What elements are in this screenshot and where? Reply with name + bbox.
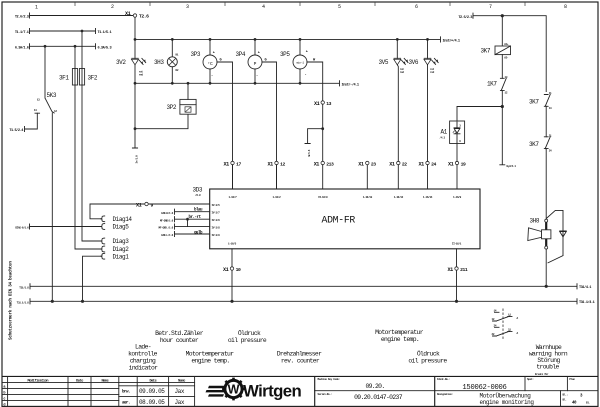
svg-text:Date: Date	[149, 379, 156, 383]
svg-text:Ersatz für: Ersatz für	[535, 372, 549, 376]
svg-text:red: red	[400, 70, 405, 74]
junction bus2 x135	[134, 82, 137, 85]
svg-text:A1+: A1+	[504, 43, 509, 46]
svg-text:Motortemperatur: Motortemperatur	[186, 350, 235, 357]
svg-text:W: W	[228, 383, 240, 397]
svg-text:Diag1: Diag1	[113, 253, 130, 260]
wire 6.3A	[30, 44, 96, 49]
svg-text:T2.6: T2.6	[139, 14, 149, 20]
svg-text:1-16/12: 1-16/12	[394, 195, 404, 199]
wire X1-22 into pin	[397, 165, 399, 189]
junction T31.1 x52	[51, 300, 54, 303]
svg-text:Serial-No.:: Serial-No.:	[318, 392, 332, 396]
svg-text:Motortemperatur: Motortemperatur	[375, 329, 424, 336]
svg-text:/4.3: /4.3	[440, 136, 446, 140]
junction 6.3A to 5K3	[44, 45, 47, 48]
wire Diag1 down to T31.1	[83, 256, 101, 301]
Bl sheet cell	[563, 393, 590, 406]
svg-text:T31/4.1: T31/4.1	[579, 285, 591, 290]
svg-text:6: 6	[415, 4, 418, 10]
svg-text:X1: X1	[136, 202, 142, 208]
svg-text:°C: °C	[207, 61, 213, 67]
switch 5K3	[34, 92, 57, 113]
svg-text:red: red	[139, 73, 144, 77]
svg-text:+: +	[258, 52, 260, 56]
svg-text:T31.1/1.8: T31.1/1.8	[17, 300, 30, 304]
svg-text:3D3: 3D3	[193, 187, 203, 194]
svg-text:IV-3/9: IV-3/9	[212, 233, 221, 237]
wire A1 to X1-19	[456, 144, 458, 162]
svg-text:T2.6/2.3: T2.6/2.3	[458, 15, 472, 20]
horn 3H8	[528, 217, 551, 249]
contact mirror 3K7 cross reference	[492, 309, 519, 340]
junction T31.1 x82	[81, 300, 84, 303]
svg-text:Schutzvermerk nach DIN 34 beac: Schutzvermerk nach DIN 34 beachten	[9, 261, 14, 340]
junction bus1 x427	[426, 38, 429, 41]
lamp 3H3	[154, 39, 179, 83]
svg-text:G: G	[265, 59, 267, 63]
svg-text:indicator: indicator	[129, 364, 158, 371]
fuse 3F1	[59, 46, 78, 85]
svg-text:engine monitoring: engine monitoring	[479, 399, 534, 406]
junction horn to T31	[545, 285, 548, 288]
node X1 24	[426, 161, 429, 164]
wire ADM pin II-16/1 down to T31.1	[456, 249, 458, 301]
gauge 3P3 temperature	[191, 39, 233, 188]
svg-text:23: 23	[371, 161, 376, 167]
svg-text:Diag2: Diag2	[113, 246, 130, 253]
svg-text:ADM-FR: ADM-FR	[322, 214, 356, 225]
suppressor A1	[440, 121, 465, 144]
svg-text:4: 4	[262, 4, 265, 10]
svg-text:X1: X1	[448, 161, 454, 167]
svg-text:3H8: 3H8	[530, 217, 540, 224]
contact 3K7 21/24	[529, 135, 552, 153]
node X1 211	[455, 267, 458, 270]
svg-text:5: 5	[338, 4, 341, 10]
junction bus2 x210	[209, 82, 212, 85]
svg-text:3F1: 3F1	[59, 74, 69, 81]
svg-text:3V6: 3V6	[409, 59, 419, 66]
svg-text:3V2: 3V2	[116, 59, 126, 66]
svg-text:1-16/9: 1-16/9	[453, 195, 462, 199]
svg-text:br.-rt: br.-rt	[189, 215, 202, 220]
junction T31.1 x456	[455, 300, 458, 303]
svg-text:09.20.0147-0237: 09.20.0147-0237	[354, 394, 403, 401]
svg-text:T2.6/2.3: T2.6/2.3	[15, 15, 29, 20]
junction bus2 x172	[171, 82, 174, 85]
wire X1-213 into pin II-16/9	[322, 165, 324, 189]
svg-text:3: 3	[186, 4, 189, 10]
junction bus1 x210	[209, 38, 212, 41]
svg-text:X1: X1	[224, 161, 230, 167]
wire MF-GND. to pin IV-3/8	[175, 224, 210, 229]
wire 3V2 down to flag 3+	[132, 83, 137, 148]
svg-text:6.3A/1.6: 6.3A/1.6	[15, 45, 29, 50]
LED 3V5	[379, 39, 409, 161]
svg-text:X1: X1	[314, 101, 320, 107]
junction bus1 x255	[254, 38, 257, 41]
title block row lines name/date section	[119, 386, 195, 397]
node X1 10	[230, 267, 233, 270]
wire bus T31.1	[30, 299, 577, 304]
svg-text:X1: X1	[419, 161, 425, 167]
svg-text:1-16/2: 1-16/2	[273, 195, 282, 199]
wire 5K3 pin12 down to T31.1	[51, 113, 53, 301]
wire bus T31	[30, 284, 577, 289]
junction bus1 x300	[299, 38, 302, 41]
svg-text:Designation:: Designation:	[437, 392, 453, 396]
svg-text:3V5: 3V5	[379, 59, 389, 66]
svg-text:24: 24	[431, 161, 436, 167]
svg-text:Diag14: Diag14	[113, 216, 133, 223]
svg-text:3K7: 3K7	[481, 48, 491, 55]
junction T31.1 x232	[230, 300, 233, 303]
node X1 213	[321, 161, 324, 164]
svg-text:gelb: gelb	[194, 230, 203, 235]
svg-text:08.09.05: 08.09.05	[139, 399, 165, 406]
wire GND pair vertical	[187, 219, 189, 226]
wire 3F1 down to Diag2	[75, 85, 101, 249]
svg-text:Öldruck: Öldruck	[417, 349, 440, 357]
svg-text:3P2: 3P2	[167, 104, 177, 111]
svg-text:3K7: 3K7	[529, 98, 539, 105]
svg-text:aer.: aer.	[122, 401, 130, 405]
svg-text:Instr-/4.1: Instr-/4.1	[342, 82, 359, 87]
svg-text:X1: X1	[358, 161, 364, 167]
junction W branch	[321, 127, 324, 130]
svg-text:G: G	[220, 59, 222, 63]
junction bus1 x397	[396, 38, 399, 41]
svg-text:Bl.:: Bl.:	[563, 393, 568, 397]
svg-text:+: +	[306, 51, 308, 55]
wire 3F2 down to Diag3	[82, 85, 101, 241]
svg-text:brw.: brw.	[122, 389, 130, 394]
svg-text:oil pressure: oil pressure	[228, 337, 267, 344]
svg-text:T31/1.8: T31/1.8	[19, 285, 29, 289]
svg-text:Instr+/4.1: Instr+/4.1	[443, 39, 460, 44]
LED 3V6	[409, 39, 439, 161]
svg-text:Plan: Plan	[569, 377, 575, 381]
svg-text:T1.1/5.1: T1.1/5.1	[98, 30, 112, 35]
wire 3P2 branch	[135, 114, 188, 129]
row brw 09.09.05 Jax	[122, 388, 185, 395]
svg-text:-: -	[256, 74, 258, 78]
svg-text:3F2: 3F2	[88, 74, 98, 81]
wire CAN-H to pin IV-3/7	[175, 209, 210, 214]
svg-text:trouble: trouble	[536, 363, 559, 370]
svg-text:T31.1/4.1: T31.1/4.1	[579, 300, 595, 305]
svg-text:T1.5/2.4: T1.5/2.4	[9, 128, 24, 133]
svg-text:8: 8	[564, 4, 567, 10]
svg-text:Drehzahlmesser: Drehzahlmesser	[277, 350, 322, 357]
wire between contacts	[545, 106, 547, 137]
svg-text:X1: X1	[314, 161, 320, 167]
svg-text:19: 19	[461, 161, 466, 167]
junction bus2 x188	[187, 82, 190, 85]
connector Diag1	[100, 253, 104, 259]
svg-text:-: -	[211, 74, 213, 78]
title block top line	[2, 375, 598, 377]
Wirtgen logo speed bars	[206, 386, 229, 397]
wire T1.1	[30, 28, 96, 33]
node X1 19	[455, 161, 458, 164]
wire CAN-L to pin IV-3/9	[175, 231, 210, 236]
svg-text:d: d	[3, 403, 5, 407]
wire 6.3A down to 5K3	[44, 46, 46, 98]
svg-text:oil pressure: oil pressure	[408, 357, 447, 364]
svg-text:T1.1/7.1: T1.1/7.1	[15, 30, 29, 35]
wire contact down to horn	[545, 149, 547, 219]
svg-text:Diag5: Diag5	[113, 224, 130, 231]
svg-text:Hyd/4.1: Hyd/4.1	[507, 164, 517, 168]
svg-text:12: 12	[280, 161, 285, 167]
svg-text:X1: X1	[125, 11, 131, 17]
svg-text:+: +	[213, 52, 215, 56]
svg-text:IV-3/7: IV-3/7	[212, 210, 221, 214]
svg-text:Name: Name	[101, 379, 108, 383]
wire X1-24 into pin	[427, 165, 429, 189]
svg-text:A1: A1	[441, 129, 448, 136]
svg-text:rev. counter: rev. counter	[281, 357, 320, 364]
svg-text:II-16/1: II-16/1	[452, 242, 462, 246]
Wirtgen logo gear	[222, 378, 245, 401]
svg-text:213: 213	[326, 161, 334, 167]
wire MF-GND to pin IV-3/6	[175, 217, 210, 222]
wire junction left to A1	[457, 107, 502, 122]
svg-text:c: c	[3, 398, 5, 402]
svg-text:211: 211	[460, 267, 468, 273]
wire bus Instr-	[135, 81, 340, 86]
node X1 13	[321, 101, 324, 104]
svg-text:1-16/7: 1-16/7	[229, 195, 238, 199]
node X1 17	[231, 161, 234, 164]
wire X1-19 into pin	[456, 165, 458, 189]
svg-text:IV-3/5: IV-3/5	[212, 203, 221, 207]
svg-text:X1: X1	[223, 267, 229, 273]
node X1 T2.6	[133, 14, 136, 17]
connector Diag5	[100, 224, 104, 230]
svg-text:kontrolle: kontrolle	[128, 350, 157, 357]
svg-text:engine temp.: engine temp.	[191, 357, 229, 364]
node X1 9	[145, 202, 148, 205]
svg-text:CAN-H/1.6: CAN-H/1.6	[161, 211, 174, 215]
svg-text:charging: charging	[130, 357, 156, 364]
wire coil to 1K7	[501, 55, 503, 79]
node X1 22	[397, 161, 400, 164]
junction bus2 x300	[299, 82, 302, 85]
svg-text:/6.8: /6.8	[195, 193, 201, 197]
svg-text:2: 2	[111, 4, 114, 10]
svg-text:1-16/5: 1-16/5	[228, 242, 237, 246]
junction T1.1 to 3F2	[81, 30, 84, 33]
fuse 3F2	[79, 31, 97, 85]
column ticks top border	[75, 2, 525, 6]
wire 5K3 pin14 to T1.5 flag	[25, 113, 38, 131]
svg-text:1K7: 1K7	[487, 81, 497, 88]
junction 6.3A to 3F1	[74, 45, 77, 48]
svg-text:Name: Name	[178, 379, 185, 383]
svg-text:engine temp.: engine temp.	[381, 336, 419, 343]
wire T2.6 right feed	[473, 13, 546, 91]
svg-text:Bl.: Bl.	[586, 400, 590, 404]
svg-text:3H3: 3H3	[154, 59, 164, 66]
junction bus1 x135	[134, 38, 137, 41]
svg-text:5K3: 5K3	[47, 92, 57, 99]
svg-text:22: 22	[402, 161, 407, 167]
svg-text:150062-0006: 150062-0006	[462, 384, 506, 392]
svg-text:10: 10	[236, 267, 241, 273]
svg-text:II-16/9: II-16/9	[318, 195, 328, 199]
controller U 3D3 ADM-FR box	[210, 189, 480, 249]
wire bus Instr+	[135, 37, 441, 42]
LED 3V2	[116, 39, 146, 83]
hour counter 3P2	[167, 83, 197, 114]
title block mid horizontal right part	[315, 390, 598, 392]
svg-text:13: 13	[326, 101, 331, 107]
diode across horn	[547, 210, 567, 262]
svg-text:A2-: A2-	[504, 57, 509, 60]
svg-text:Diag3: Diag3	[113, 238, 130, 245]
svg-text:blau: blau	[194, 208, 203, 213]
wire branch to W flag	[305, 129, 323, 144]
title block verticals	[8, 376, 195, 406]
svg-text:MF-GND./1.6: MF-GND./1.6	[159, 226, 174, 230]
svg-text:3+/1.8: 3+/1.8	[135, 155, 139, 164]
svg-text:Modification: Modification	[28, 378, 49, 383]
junction GND pair	[186, 218, 189, 221]
connector Diag2	[100, 246, 104, 252]
svg-text:1-16/14: 1-16/14	[423, 195, 433, 199]
svg-text:MF-GND/1.6: MF-GND/1.6	[160, 218, 174, 222]
svg-text:IV-3/8: IV-3/8	[212, 225, 221, 229]
wire X1 down to lamp bus	[134, 17, 136, 39]
svg-text:1: 1	[35, 5, 38, 11]
svg-text:Wirtgen: Wirtgen	[243, 382, 301, 401]
wire X1-12 into pin	[276, 165, 278, 189]
wire X1-9 to ADM pin IV-3/5	[149, 203, 210, 205]
wire X1-17 into pin	[232, 165, 234, 189]
wire junction down to coil	[501, 16, 503, 46]
svg-text:09.09.05: 09.09.05	[139, 388, 165, 395]
svg-text:Ident-No.:: Ident-No.:	[437, 377, 450, 381]
wire Diag5 to DIAG-6 flag	[30, 224, 101, 229]
svg-text:red: red	[430, 70, 435, 74]
row aer 08.09.05 Jax	[122, 399, 185, 406]
svg-text:Lade-: Lade-	[135, 343, 151, 350]
row letters a b c d	[3, 386, 6, 407]
svg-text:6.3A/5.3: 6.3A/5.3	[98, 45, 112, 50]
svg-text:09.20.: 09.20.	[365, 383, 384, 390]
svg-text:P: P	[254, 61, 257, 67]
svg-text:IV-3/6: IV-3/6	[212, 218, 221, 222]
svg-text:W/1.6: W/1.6	[307, 149, 311, 156]
svg-text:DIAG-6/1.6: DIAG-6/1.6	[15, 226, 29, 230]
node X1 23 + wire to pin 1-16/13	[366, 165, 368, 189]
svg-text:Machine Key Code:: Machine Key Code:	[318, 377, 340, 381]
svg-text:1-16/13: 1-16/13	[363, 195, 373, 199]
svg-text:X1: X1	[389, 161, 395, 167]
wire T2.6 left	[30, 13, 134, 18]
gauge 3P4 oil pressure	[236, 39, 277, 188]
relay coil 3K7	[481, 43, 511, 59]
wire horn to T31	[545, 249, 547, 286]
svg-text:Date: Date	[76, 379, 83, 383]
title block row lines left section	[2, 382, 195, 400]
svg-text:min-1: min-1	[296, 61, 304, 65]
junction hyd node	[501, 105, 504, 108]
junction bus1 x172	[171, 38, 174, 41]
node X1 12	[275, 161, 278, 164]
column numbers 1-8	[35, 4, 567, 11]
wire X1-13 down	[322, 104, 324, 161]
svg-text:hour counter: hour counter	[160, 337, 199, 344]
gauge 3P5 rev counter	[280, 39, 323, 100]
contact 3K7 11/14	[529, 92, 552, 110]
svg-text:b: b	[3, 391, 5, 396]
svg-text:7: 7	[489, 4, 492, 10]
svg-text:Betr.Std.Zähler: Betr.Std.Zähler	[155, 330, 204, 337]
svg-text:CAN-L/1.6: CAN-L/1.6	[161, 233, 174, 237]
svg-text:3P5: 3P5	[280, 51, 290, 58]
svg-text:Öldruck: Öldruck	[238, 329, 261, 337]
junction feed to 3K7 coil	[501, 14, 504, 17]
svg-text:Jax: Jax	[175, 399, 185, 406]
wire 1K7 to junction	[501, 91, 503, 107]
wire ADM pin 1-16/5 down to T31.1	[231, 249, 233, 301]
svg-text:X1: X1	[448, 267, 454, 273]
contact 1K7	[487, 76, 508, 95]
wire Diag14 to X1-9	[90, 204, 144, 219]
svg-text:Jax: Jax	[175, 388, 185, 395]
svg-text:3P4: 3P4	[236, 51, 246, 58]
junction bus2 x255	[254, 82, 257, 85]
connector Diag3	[100, 238, 104, 244]
svg-text:3K7: 3K7	[529, 141, 539, 148]
svg-text:Bl.: Bl.	[563, 398, 567, 402]
wire junction down to Hyd flag	[500, 107, 505, 165]
svg-text:Spot:: Spot:	[527, 378, 534, 381]
svg-text:-: -	[305, 73, 307, 77]
connector Diag14	[100, 216, 104, 222]
svg-text:3P3: 3P3	[191, 51, 201, 58]
svg-text:17: 17	[236, 161, 241, 167]
svg-text:X1: X1	[268, 161, 274, 167]
junction 3V2/3P2 node	[134, 127, 137, 130]
